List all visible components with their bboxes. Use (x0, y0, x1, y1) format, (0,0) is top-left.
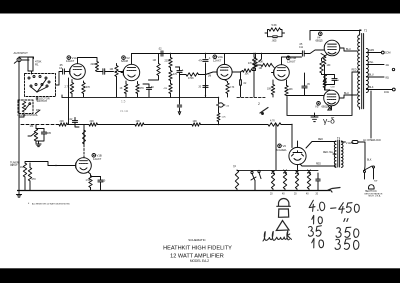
svg-text:1K: 1K (120, 87, 123, 90)
stamp (365, 185, 383, 198)
label V6 (276, 144, 287, 152)
tube V5 EL84 (324, 90, 340, 106)
svg-text:50: 50 (337, 80, 340, 82)
wire (237, 169, 318, 171)
svg-text:ALL RESISTORS 1/2 WATT UNLESS: ALL RESISTORS 1/2 WATT UNLESS NOTED (32, 203, 70, 206)
wire (62, 78, 69, 125)
svg-text:20: 20 (199, 87, 202, 89)
svg-text:4.7K: 4.7K (270, 120, 275, 123)
resistor R22 (254, 59, 264, 69)
svg-text:12AX7: 12AX7 (213, 58, 222, 62)
resistor R9 cathode (65, 83, 74, 94)
wire (18, 66, 20, 191)
wire common down (370, 91, 372, 138)
resistor R15 screen (149, 54, 161, 81)
resistor R39 (306, 170, 311, 196)
pen check (328, 188, 340, 193)
svg-text:1M: 1M (153, 59, 156, 62)
resistor R31 feedback (269, 23, 281, 31)
svg-text:YEL: YEL (369, 62, 374, 64)
capacitor C16 (316, 173, 321, 196)
svg-text:COM: COM (385, 53, 390, 55)
wire (275, 124, 276, 170)
svg-text:AC INTERLOCK: AC INTERLOCK (363, 139, 381, 142)
wire (259, 53, 262, 62)
svg-text:8Ω: 8Ω (386, 76, 389, 80)
handwritten 10 (312, 215, 348, 224)
svg-text:GRN: GRN (369, 50, 374, 52)
svg-text:6CA4/EZL: 6CA4/EZL (276, 149, 287, 152)
level control pot R2 (22, 102, 30, 113)
wire AC (358, 142, 365, 158)
svg-text:40: 40 (282, 194, 285, 196)
svg-text:BLU: BLU (346, 48, 351, 51)
label V1B (92, 154, 102, 161)
capacitor C9 (199, 58, 212, 63)
capacitor C2 (98, 177, 106, 187)
label level control (18, 113, 39, 117)
label power (374, 181, 377, 183)
ground bus (17, 190, 330, 192)
svg-text:*: * (28, 202, 30, 206)
svg-text:16Ω: 16Ω (384, 90, 389, 94)
bottom black bar (0, 268, 400, 283)
svg-text:47K: 47K (86, 86, 91, 89)
capacitor C17 (325, 75, 340, 85)
svg-text:1M: 1M (259, 67, 262, 70)
symbol dome (277, 199, 291, 207)
wire plate V1A (78, 58, 98, 64)
svg-text:INPUT: INPUT (20, 51, 29, 55)
svg-text:1.2K: 1.2K (222, 117, 227, 119)
wire splitter out low (287, 95, 289, 97)
tap 8 (366, 75, 389, 80)
label input2 (10, 161, 19, 168)
svg-text:BLU: BLU (344, 92, 349, 95)
wire (38, 141, 40, 144)
svg-text:RED: RED (316, 164, 321, 166)
title schematic (188, 238, 206, 242)
wire (56, 72, 71, 86)
capacitor C1 (41, 129, 51, 139)
capacitor C5 (97, 69, 112, 75)
resistor R26 (267, 80, 275, 97)
wire (19, 57, 34, 62)
resistor R20 cathode (225, 80, 235, 97)
svg-text:12AX7: 12AX7 (66, 59, 75, 63)
handwritten y-8 (323, 116, 335, 126)
svg-text:22K: 22K (60, 120, 65, 123)
svg-text:SCHEMATIC: SCHEMATIC (188, 238, 206, 242)
svg-text:2M: 2M (208, 76, 211, 78)
svg-text:20: 20 (316, 194, 319, 196)
label red-yel (323, 152, 336, 154)
resistor R14 (136, 82, 144, 98)
resistor R5 (20, 163, 27, 177)
svg-text:.1: .1 (182, 69, 185, 72)
svg-text:BLK: BLK (367, 160, 372, 162)
label V3B (287, 56, 297, 63)
svg-text:2: 2 (258, 102, 260, 106)
svg-text:470: 470 (32, 178, 37, 181)
title heathkit (163, 246, 232, 252)
capacitor C11 (299, 44, 304, 56)
svg-text:20: 20 (270, 194, 273, 196)
svg-text:47K: 47K (199, 61, 204, 63)
resistor R17 (169, 71, 178, 81)
ground sym (311, 113, 318, 122)
wire (88, 172, 101, 191)
resistor R38 (282, 170, 287, 196)
resistor R13 cathode (120, 81, 128, 97)
svg-text:1.5K: 1.5K (86, 179, 91, 182)
capacitor C12 (302, 73, 311, 96)
wire splitter out high (282, 57, 302, 65)
svg-text:V6: V6 (283, 144, 287, 148)
level control box (18, 100, 33, 114)
jack tip (251, 171, 256, 190)
dashed bus (237, 96, 265, 98)
hum balance control (258, 102, 268, 115)
svg-text:47K: 47K (173, 74, 178, 76)
svg-text:≠1.1Ω: ≠1.1Ω (120, 109, 129, 113)
resistor R33 (89, 120, 98, 126)
B+ line (21, 124, 59, 126)
capacitor C4 grid (59, 63, 64, 74)
wire arrow (177, 76, 181, 115)
svg-text:.1: .1 (209, 58, 212, 60)
volume control R4 (28, 124, 38, 141)
resistor R28 grid V4 (321, 54, 326, 69)
ground (16, 191, 21, 198)
svg-text:1M: 1M (20, 165, 24, 169)
label C13 (272, 39, 278, 43)
svg-text:BLU: BLU (369, 75, 374, 77)
svg-text:RED: RED (352, 70, 357, 72)
pot R3 wiper (36, 108, 41, 114)
svg-text:40: 40 (306, 194, 309, 196)
resistor R35 (192, 120, 201, 126)
resistor R16 (165, 58, 173, 68)
svg-text:CONTROL: CONTROL (25, 113, 38, 117)
resistor R34 (135, 120, 144, 126)
wire (98, 124, 136, 126)
label T2 (364, 29, 368, 33)
wire (265, 30, 285, 37)
label BLU (346, 48, 351, 51)
handwritten 4.0-450 (309, 200, 360, 213)
tube V6 EZ81 (289, 147, 306, 164)
resistor R30 cathode (320, 55, 331, 74)
svg-text:RED-YEL: RED-YEL (323, 152, 334, 154)
svg-text:AUX: AUX (14, 51, 20, 55)
svg-text:47K: 47K (140, 87, 145, 90)
svg-text:10K: 10K (136, 120, 141, 123)
B+ rail (132, 53, 302, 55)
capacitor C3 (69, 118, 78, 126)
label T1 (337, 136, 341, 140)
svg-text:INPUT: INPUT (10, 163, 18, 167)
symbol square (278, 209, 288, 217)
resistor R30b (322, 73, 336, 91)
wire (200, 72, 218, 75)
svg-text:5.6K: 5.6K (272, 23, 278, 27)
handwritten blank (263, 231, 292, 241)
capacitor C15 (294, 171, 299, 196)
svg-text:10K: 10K (267, 89, 272, 91)
title 12watt (170, 254, 224, 260)
wire primary bot (300, 164, 336, 167)
svg-text:RED: RED (318, 139, 323, 141)
jack tip2 (258, 170, 261, 178)
svg-text:.05: .05 (299, 44, 303, 46)
resistor R25 (248, 57, 256, 69)
switch SW2 (364, 158, 375, 179)
wire (19, 97, 37, 118)
svg-text:V5: V5 (315, 105, 319, 109)
svg-text:.005: .005 (46, 131, 52, 135)
tube V1A 12AX7 (68, 64, 86, 80)
svg-text:HEATHKIT HIGH FIDELITY: HEATHKIT HIGH FIDELITY (163, 246, 232, 252)
fuse (341, 141, 358, 146)
svg-text:TP: TP (233, 166, 236, 169)
wire (305, 50, 324, 54)
svg-text:2.7K: 2.7K (65, 86, 70, 89)
wire plate V5 (339, 95, 357, 98)
wire (180, 74, 204, 76)
svg-text:2.7K: 2.7K (230, 87, 235, 89)
wire screen (205, 53, 206, 97)
wire grid V1B (48, 165, 74, 166)
svg-text:270K: 270K (258, 62, 264, 64)
tube V2A 12AX7 (215, 64, 232, 79)
handwritten 10 350 (312, 238, 360, 249)
resistor R36 (268, 120, 281, 127)
label 2M (208, 76, 211, 78)
svg-text:6BQ5: 6BQ5 (322, 105, 330, 109)
wire plate V3 (224, 54, 226, 65)
wire (36, 125, 44, 144)
wire (170, 53, 171, 98)
label BLU2 (344, 92, 349, 95)
resistor R8 plate load (83, 130, 86, 144)
pencil note (120, 100, 129, 114)
title model (190, 259, 209, 263)
svg-text:10K: 10K (289, 89, 294, 91)
svg-text:SW: SW (374, 181, 377, 183)
wire (75, 126, 79, 128)
resistor R1 470K (28, 57, 42, 71)
wire (253, 53, 257, 71)
wire B+ down (287, 72, 352, 115)
wire (68, 124, 90, 126)
svg-text:1.5: 1.5 (121, 100, 126, 104)
svg-text:T1: T1 (337, 136, 341, 140)
label selector switch (36, 97, 50, 104)
handwritten 35 350 (308, 226, 359, 238)
output transformer T2 (358, 30, 369, 109)
svg-text:1M: 1M (110, 67, 114, 71)
label V4 (316, 32, 324, 43)
label BLK (367, 160, 372, 162)
wire (201, 124, 269, 126)
svg-text:470K: 470K (188, 77, 194, 80)
wire (281, 124, 293, 125)
svg-text:6BQ5: 6BQ5 (316, 39, 324, 43)
svg-text:20: 20 (103, 180, 106, 183)
resistor R37 (233, 166, 239, 191)
capacitor C8 (177, 67, 184, 76)
wire (256, 65, 275, 68)
tube V4 EL84 (324, 40, 340, 56)
svg-text:4Ω: 4Ω (386, 63, 389, 67)
svg-text:.05: .05 (307, 84, 311, 86)
svg-text:47K: 47K (164, 88, 168, 90)
capacitor C6 (143, 84, 154, 97)
resistor R24 grid (259, 63, 273, 70)
wire (232, 71, 241, 72)
resistor R10 (82, 83, 91, 94)
wire (328, 106, 332, 110)
tube V2 6AN8 (121, 64, 140, 80)
svg-text:γ-δ: γ-δ (323, 116, 335, 126)
resistor R12 grid (110, 64, 119, 98)
wire (144, 124, 192, 126)
svg-text:220K: 220K (165, 61, 171, 63)
resistor R7 cathode (86, 176, 93, 188)
tap 16 (366, 87, 395, 94)
svg-text:BLK: BLK (369, 87, 374, 89)
svg-text:.005: .005 (272, 39, 278, 43)
power transformer T1 (334, 140, 343, 167)
svg-text:130: 130 (327, 65, 332, 67)
label V2A (213, 55, 223, 62)
symbol triangle (276, 221, 289, 231)
wire plate V1B (83, 125, 85, 158)
svg-text:SWITCH: SWITCH (37, 99, 48, 103)
center tap RED (352, 70, 360, 73)
svg-text:MICH. U.S.A.: MICH. U.S.A. (369, 195, 382, 198)
svg-text:R3: R3 (36, 108, 40, 112)
capacitor C19 electrolytic (217, 97, 230, 113)
svg-text:C11: C11 (299, 47, 304, 49)
svg-text:6AN8: 6AN8 (121, 59, 128, 63)
wire primary top (306, 139, 336, 148)
input jack J1 (14, 51, 29, 65)
svg-text:50: 50 (151, 86, 154, 89)
capacitor C13 feedback (273, 36, 277, 38)
svg-text:20: 20 (294, 194, 297, 196)
tap 4 (366, 62, 394, 71)
cathode bus (62, 96, 218, 98)
wire (292, 125, 298, 171)
wire grid V2 (119, 71, 124, 73)
label V1A (66, 56, 77, 63)
wire (25, 162, 48, 191)
tap COM (366, 50, 390, 55)
label V2 (121, 56, 130, 63)
resistor R29 grid V5 (323, 68, 326, 90)
resistor R21 (241, 69, 253, 76)
svg-text:12AX7: 12AX7 (93, 157, 102, 161)
svg-text:220K: 220K (91, 63, 97, 66)
svg-text:10K: 10K (245, 74, 250, 76)
svg-text:12AU7: 12AU7 (287, 59, 296, 63)
ground (36, 144, 41, 147)
resistor R6 (28, 168, 36, 182)
svg-text:MODEL EA-2: MODEL EA-2 (190, 259, 209, 263)
resistor R27 (285, 80, 293, 96)
wire (253, 53, 254, 97)
resistor R20b (217, 113, 226, 125)
capacitor C7 (158, 47, 163, 57)
svg-text:+50: +50 (226, 106, 230, 108)
wire (287, 95, 324, 97)
capacitor C14 (270, 171, 275, 196)
top black bar (0, 0, 400, 14)
capacitor C10 (240, 72, 247, 97)
wire plate V2 (131, 54, 133, 65)
label V5 (315, 102, 329, 109)
selector switch SW1 (25, 74, 56, 97)
resistor R18 (186, 73, 199, 80)
wire top rail (310, 31, 361, 41)
svg-text:47K: 47K (248, 63, 253, 65)
resistor R32 (59, 120, 68, 126)
tube V3B 12AU7 (272, 65, 290, 81)
svg-text:R1: R1 (35, 63, 39, 67)
svg-text:22K: 22K (90, 120, 95, 123)
resistor R11 plate (91, 62, 99, 72)
svg-text:C18: C18 (331, 87, 336, 89)
wire (176, 66, 180, 68)
tube V1B 12AX7 (74, 158, 92, 174)
wire (72, 80, 84, 98)
resistor R17b (164, 84, 173, 94)
note text (28, 202, 70, 206)
capacitor C10b (199, 83, 209, 88)
svg-text:T2: T2 (364, 29, 368, 33)
label AC interlock (363, 139, 381, 142)
wire plate V4 (340, 48, 357, 51)
wire (31, 71, 33, 74)
svg-text:.02: .02 (158, 47, 162, 51)
svg-text:.02: .02 (243, 83, 247, 85)
svg-text:10K: 10K (193, 120, 198, 123)
